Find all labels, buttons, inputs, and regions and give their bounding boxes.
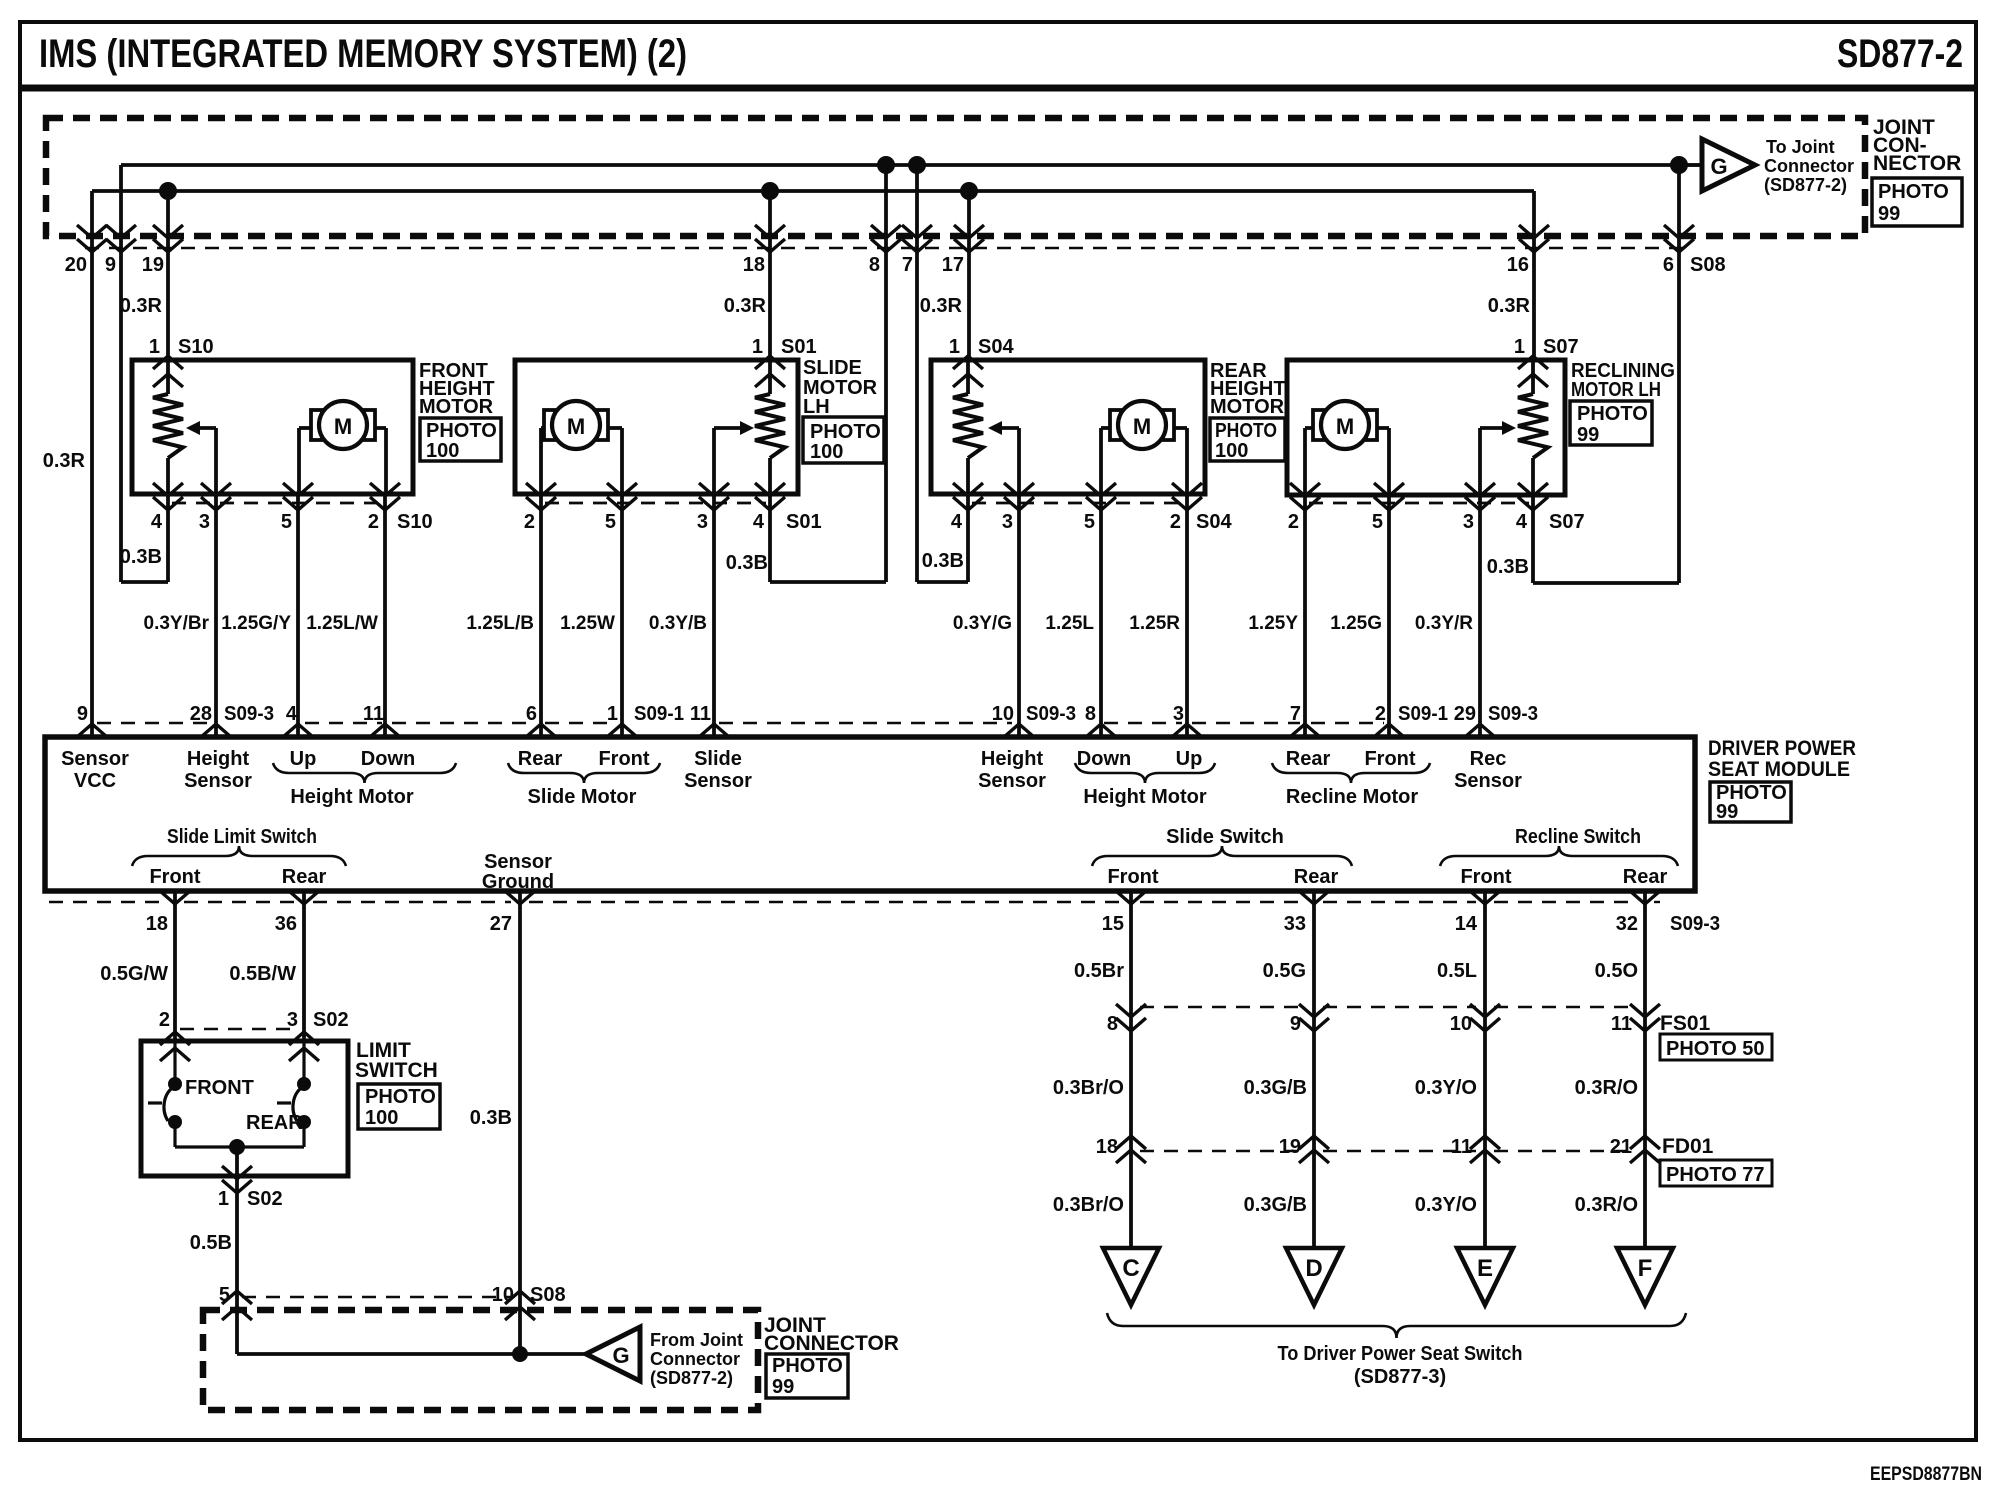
- wire S08 pin9 to S10 pin4 (0.3B loop): [119, 165, 123, 582]
- PHOTO 99 box (S07): [1570, 401, 1652, 445]
- svg-text:5: 5: [605, 511, 616, 533]
- svg-text:S09-3: S09-3: [1026, 703, 1076, 725]
- wire S04 pin5 to module pin8 (1.25L): [1099, 494, 1103, 737]
- svg-text:2: 2: [1375, 703, 1386, 725]
- svg-text:2: 2: [524, 511, 535, 533]
- svg-text:Front: Front: [149, 866, 200, 888]
- svg-text:8: 8: [1107, 1013, 1118, 1035]
- wiper arrow S01: [712, 428, 716, 494]
- svg-text:0.3Y/B: 0.3Y/B: [649, 613, 707, 634]
- FS01 arrows: [1116, 1004, 1146, 1017]
- motor M in S07: [1313, 410, 1324, 440]
- svg-text:0.3B: 0.3B: [470, 1107, 512, 1129]
- svg-text:29: 29: [1454, 703, 1476, 725]
- svg-text:3: 3: [199, 511, 210, 533]
- svg-text:10: 10: [992, 703, 1014, 725]
- bus wire 1 (upper, y=165): [121, 163, 1702, 167]
- wire S01 pin2 to module pin6 (1.25L/B): [539, 494, 543, 737]
- svg-text:S09-3: S09-3: [224, 703, 274, 725]
- motor connector top arrows: [153, 356, 183, 369]
- svg-text:SWITCH: SWITCH: [355, 1059, 438, 1082]
- svg-text:0.3R/O: 0.3R/O: [1575, 1194, 1638, 1216]
- limit switch REAR contact: [302, 1041, 305, 1084]
- svg-text:Slide Switch: Slide Switch: [1166, 826, 1284, 848]
- svg-text:S01: S01: [786, 511, 822, 533]
- svg-text:10: 10: [1450, 1013, 1472, 1035]
- S02 connector dashed line (top): [180, 1028, 296, 1030]
- svg-text:1.25L/B: 1.25L/B: [466, 613, 534, 634]
- svg-text:4: 4: [951, 511, 963, 533]
- limit switch box S02: [141, 1041, 348, 1176]
- svg-text:PHOTO: PHOTO: [1577, 403, 1648, 425]
- svg-text:0.3Br/O: 0.3Br/O: [1053, 1194, 1124, 1216]
- svg-text:S09-3: S09-3: [1670, 913, 1720, 935]
- slide motor LH box S01: [515, 360, 798, 494]
- svg-text:18: 18: [146, 913, 168, 935]
- svg-text:0.3Y/O: 0.3Y/O: [1415, 1077, 1477, 1099]
- triangle E: [1457, 1248, 1513, 1305]
- svg-text:LH: LH: [803, 396, 830, 418]
- bus wire 2 (lower, y=191): [92, 189, 1534, 193]
- svg-text:1: 1: [218, 1188, 229, 1210]
- svg-text:FD01: FD01: [1662, 1135, 1714, 1158]
- limit switch FRONT contact: [173, 1041, 176, 1084]
- brace slide switch: [1092, 846, 1352, 866]
- svg-text:S04: S04: [978, 336, 1014, 358]
- wire module pin15 down to triangle C (0.5Br / 0.3Br/O): [1129, 891, 1133, 1248]
- svg-text:SD877-2: SD877-2: [1837, 32, 1963, 76]
- svg-text:4: 4: [286, 703, 298, 725]
- svg-text:Down: Down: [361, 748, 415, 770]
- node junction dots on bus wires: [159, 182, 177, 200]
- brace slide limit switch: [132, 846, 346, 866]
- svg-text:11: 11: [690, 703, 711, 725]
- FS01 connector dashed line: [1140, 1006, 1305, 1008]
- svg-text:7: 7: [1290, 703, 1301, 725]
- svg-text:Rear: Rear: [518, 748, 563, 770]
- svg-text:M: M: [1133, 414, 1151, 439]
- svg-text:9: 9: [77, 703, 88, 725]
- svg-text:9: 9: [105, 254, 116, 276]
- svg-text:Front: Front: [1364, 748, 1415, 770]
- svg-text:S09-1: S09-1: [634, 703, 684, 725]
- wire module pin36 to S02 pin3 (0.5B/W): [302, 891, 306, 1041]
- svg-text:S07: S07: [1549, 511, 1585, 533]
- svg-text:Height: Height: [187, 748, 250, 770]
- S09 connector dashed line (module top): [97, 722, 208, 724]
- svg-text:4: 4: [1516, 511, 1528, 533]
- svg-text:0.5G: 0.5G: [1263, 960, 1306, 982]
- joint connector dashed box (bottom): [203, 1310, 758, 1410]
- svg-text:99: 99: [1577, 424, 1599, 446]
- svg-text:NECTOR: NECTOR: [1873, 152, 1961, 175]
- svg-text:S09-3: S09-3: [1488, 703, 1538, 725]
- resistor in S10 (height sensor): [166, 360, 170, 394]
- svg-text:0.3R: 0.3R: [120, 295, 163, 317]
- svg-text:1.25Y: 1.25Y: [1248, 613, 1298, 634]
- svg-text:SEAT MODULE: SEAT MODULE: [1708, 758, 1850, 781]
- wire S01 pin3 to module pin11 (0.3Y/B): [712, 494, 716, 737]
- svg-text:Up: Up: [1176, 748, 1203, 770]
- S10 bottom connector dashed line: [172, 502, 381, 505]
- svg-text:Sensor: Sensor: [61, 748, 129, 770]
- resistor in S04 (height sensor): [966, 360, 970, 394]
- svg-text:Slide Limit Switch: Slide Limit Switch: [167, 826, 317, 848]
- svg-text:Recline Motor: Recline Motor: [1286, 786, 1418, 808]
- S09-3 connector dashed line (module bottom): [49, 901, 166, 903]
- PHOTO 99 box (top right): [1872, 178, 1962, 226]
- wire module pin33 down to triangle D (0.5G / 0.3G/B): [1312, 891, 1316, 1248]
- svg-text:Sensor: Sensor: [184, 770, 252, 792]
- svg-text:1.25L/W: 1.25L/W: [306, 613, 378, 634]
- triangle F: [1617, 1248, 1673, 1305]
- wire S08 pin7 to S04 pin4 (0.3B loop): [915, 165, 919, 582]
- svg-text:S04: S04: [1196, 511, 1232, 533]
- svg-text:Height Motor: Height Motor: [1083, 786, 1207, 808]
- svg-text:16: 16: [1507, 254, 1529, 276]
- svg-text:100: 100: [810, 441, 843, 463]
- PHOTO 99 box (module): [1710, 782, 1791, 822]
- svg-text:0.3R: 0.3R: [920, 295, 963, 317]
- svg-text:100: 100: [365, 1107, 398, 1129]
- svg-text:0.5Br: 0.5Br: [1074, 960, 1124, 982]
- svg-text:11: 11: [363, 703, 384, 725]
- wire S10 pin2 to module pin11 (1.25L/W): [383, 494, 387, 737]
- svg-text:0.3R/O: 0.3R/O: [1575, 1077, 1638, 1099]
- wire S08 pin17 to S04 pin1 (0.3R): [967, 191, 971, 360]
- svg-text:Front: Front: [1107, 866, 1158, 888]
- svg-text:17: 17: [942, 254, 964, 276]
- svg-text:1.25G: 1.25G: [1330, 613, 1382, 634]
- S04 bottom connector dashed line: [972, 502, 1183, 505]
- svg-text:1: 1: [1514, 336, 1525, 358]
- svg-text:Ground: Ground: [482, 871, 554, 893]
- svg-text:8: 8: [1085, 703, 1096, 725]
- svg-text:3: 3: [1463, 511, 1474, 533]
- G triangle from joint connector (bottom): [586, 1327, 640, 1381]
- svg-text:99: 99: [772, 1376, 794, 1398]
- svg-text:0.3G/B: 0.3G/B: [1244, 1194, 1307, 1216]
- brace slide motor: [508, 763, 660, 783]
- svg-text:MOTOR: MOTOR: [1210, 396, 1285, 418]
- svg-text:PHOTO: PHOTO: [1215, 420, 1277, 442]
- wire module pin27 sensor ground down (0.3B): [518, 891, 522, 1354]
- svg-text:S08: S08: [530, 1284, 566, 1306]
- module bottom arrows: [160, 891, 190, 904]
- svg-text:99: 99: [1716, 801, 1738, 823]
- svg-text:28: 28: [190, 703, 212, 725]
- svg-text:0.3Y/G: 0.3Y/G: [953, 613, 1012, 634]
- wire S07 pin3 to module pin29 (0.3Y/R): [1478, 495, 1482, 737]
- wiper arrow S10: [214, 428, 218, 494]
- svg-text:Connector: Connector: [650, 1349, 740, 1369]
- PHOTO 100 box (S01): [803, 417, 884, 463]
- svg-text:From Joint: From Joint: [650, 1330, 743, 1350]
- svg-text:36: 36: [275, 913, 297, 935]
- svg-text:PHOTO: PHOTO: [426, 420, 497, 442]
- svg-text:Rear: Rear: [282, 866, 327, 888]
- svg-text:S10: S10: [397, 511, 433, 533]
- svg-text:0.3R: 0.3R: [43, 450, 86, 472]
- svg-text:S09-1: S09-1: [1398, 703, 1448, 725]
- svg-text:Height Motor: Height Motor: [290, 786, 414, 808]
- svg-text:1: 1: [149, 336, 160, 358]
- wire S08 pin19 to S10 pin1 (0.3R): [166, 191, 170, 360]
- svg-text:0.3B: 0.3B: [726, 552, 768, 574]
- joint connector dashed box (top): [46, 118, 1865, 236]
- brace height motor (right): [1075, 763, 1215, 783]
- wire S04 pin3 to module pin10 (0.3Y/G): [1017, 494, 1021, 737]
- svg-text:Slide Motor: Slide Motor: [528, 786, 637, 808]
- svg-text:0.3Br/O: 0.3Br/O: [1053, 1077, 1124, 1099]
- module top arrows (into module): [77, 724, 107, 737]
- svg-text:1.25R: 1.25R: [1129, 613, 1180, 634]
- S08 connector dashed line (bottom): [242, 1296, 514, 1298]
- svg-text:M: M: [1336, 414, 1354, 439]
- S08 bottom arrows: [222, 1291, 252, 1304]
- svg-text:0.5O: 0.5O: [1595, 960, 1638, 982]
- svg-text:Slide: Slide: [694, 748, 742, 770]
- svg-text:19: 19: [1279, 1136, 1301, 1158]
- svg-text:0.3G/B: 0.3G/B: [1244, 1077, 1307, 1099]
- svg-text:1: 1: [752, 336, 763, 358]
- svg-text:33: 33: [1284, 913, 1306, 935]
- svg-text:REAR: REAR: [246, 1112, 303, 1134]
- S08 connector dashed line (top): [85, 247, 1688, 249]
- svg-text:M: M: [334, 414, 352, 439]
- svg-text:M: M: [567, 414, 585, 439]
- svg-text:PHOTO: PHOTO: [1878, 181, 1949, 203]
- driver power seat module box: [45, 737, 1695, 891]
- svg-text:3: 3: [287, 1009, 298, 1031]
- svg-text:0.3Y/R: 0.3Y/R: [1415, 613, 1473, 634]
- svg-text:G: G: [1710, 154, 1727, 179]
- wire S04 pin2 to module pin3 (1.25R): [1185, 494, 1189, 737]
- wire S10 pin3 to module pin28 (0.3Y/Br): [214, 494, 218, 737]
- S02 top arrows: [160, 1032, 190, 1045]
- svg-text:1: 1: [607, 703, 618, 725]
- svg-text:To Joint: To Joint: [1766, 137, 1835, 157]
- svg-text:SLIDE: SLIDE: [803, 357, 862, 379]
- triangle C to driver power seat switch: [1103, 1248, 1159, 1305]
- svg-text:FRONT: FRONT: [185, 1077, 254, 1099]
- svg-text:5: 5: [1084, 511, 1095, 533]
- svg-text:100: 100: [1215, 440, 1248, 462]
- svg-text:Recline Switch: Recline Switch: [1515, 826, 1641, 848]
- svg-text:PHOTO 50: PHOTO 50: [1666, 1038, 1765, 1060]
- svg-text:Sensor: Sensor: [684, 770, 752, 792]
- FD01 connector dashed line: [1140, 1150, 1305, 1152]
- svg-text:E: E: [1477, 1255, 1493, 1282]
- wire module pin18 to S02 pin2 (0.5G/W): [173, 891, 177, 1041]
- svg-text:Front: Front: [1460, 866, 1511, 888]
- limit switch common wire: [175, 1145, 304, 1148]
- PHOTO 50 box: [1660, 1034, 1772, 1060]
- svg-text:5: 5: [219, 1284, 230, 1306]
- svg-text:Rear: Rear: [1623, 866, 1668, 888]
- S01 bottom connector dashed line: [545, 502, 766, 505]
- svg-text:C: C: [1122, 1255, 1139, 1282]
- svg-text:6: 6: [1663, 254, 1674, 276]
- svg-text:EEPSD8877BN: EEPSD8877BN: [1870, 1464, 1982, 1485]
- triangle D: [1286, 1248, 1342, 1305]
- svg-text:27: 27: [490, 913, 512, 935]
- wire to G triangle (bottom): [237, 1352, 586, 1356]
- FD01 arrows: [1116, 1136, 1146, 1149]
- svg-text:S08: S08: [1690, 254, 1726, 276]
- svg-text:5: 5: [281, 511, 292, 533]
- svg-text:0.5B/W: 0.5B/W: [229, 963, 296, 985]
- svg-text:3: 3: [697, 511, 708, 533]
- front height motor box S10: [132, 360, 413, 494]
- wiper arrow S04: [1017, 428, 1021, 494]
- svg-text:0.3R: 0.3R: [724, 295, 767, 317]
- svg-text:Connector: Connector: [1764, 156, 1854, 176]
- svg-text:PHOTO: PHOTO: [772, 1355, 843, 1377]
- svg-text:S07: S07: [1543, 336, 1579, 358]
- svg-text:4: 4: [151, 511, 163, 533]
- svg-text:21: 21: [1610, 1136, 1632, 1158]
- svg-text:3: 3: [1002, 511, 1013, 533]
- svg-text:(SD877-3): (SD877-3): [1354, 1366, 1446, 1388]
- svg-text:Rear: Rear: [1294, 866, 1339, 888]
- svg-text:IMS (INTEGRATED MEMORY SYSTEM): IMS (INTEGRATED MEMORY SYSTEM) (2): [39, 32, 687, 76]
- svg-text:Down: Down: [1077, 748, 1131, 770]
- svg-text:(SD877-2): (SD877-2): [1764, 175, 1847, 195]
- svg-text:VCC: VCC: [74, 770, 116, 792]
- svg-text:0.5G/W: 0.5G/W: [100, 963, 168, 985]
- svg-text:Sensor: Sensor: [1454, 770, 1522, 792]
- svg-text:15: 15: [1102, 913, 1124, 935]
- motor M in S10: [311, 410, 322, 440]
- PHOTO 99 box (bottom joint connector): [766, 1354, 848, 1398]
- svg-text:S10: S10: [178, 336, 214, 358]
- PHOTO 100 box (limit switch): [358, 1084, 440, 1129]
- svg-text:PHOTO: PHOTO: [810, 421, 881, 443]
- svg-text:1: 1: [949, 336, 960, 358]
- svg-text:1.25L: 1.25L: [1045, 613, 1094, 634]
- wire S08 pin18 to S01 pin1 (0.3R): [768, 191, 772, 360]
- wire S07 pin5 to module pin2 (1.25G): [1387, 495, 1391, 737]
- svg-text:100: 100: [426, 440, 459, 462]
- svg-text:18: 18: [1096, 1136, 1118, 1158]
- wiper arrow S07: [1478, 428, 1482, 495]
- brace recline switch: [1440, 846, 1678, 866]
- S02 bottom arrows and labels 1 S02: [222, 1166, 252, 1179]
- wire S01 pin5 to module pin1 (1.25W): [620, 494, 624, 737]
- svg-text:2: 2: [159, 1009, 170, 1031]
- svg-text:99: 99: [1878, 203, 1900, 225]
- svg-text:Rec: Rec: [1470, 748, 1507, 770]
- S08 connector arrows: [77, 225, 107, 238]
- svg-text:Rear: Rear: [1286, 748, 1331, 770]
- svg-text:G: G: [612, 1343, 629, 1368]
- svg-text:0.5L: 0.5L: [1437, 960, 1477, 982]
- svg-text:D: D: [1305, 1255, 1322, 1282]
- wire S08 pin20 down to module pin9 (0.3R): [90, 191, 94, 737]
- svg-text:CONNECTOR: CONNECTOR: [764, 1332, 899, 1355]
- motor M in S04: [1110, 410, 1121, 440]
- svg-text:S02: S02: [313, 1009, 349, 1031]
- svg-text:PHOTO 77: PHOTO 77: [1666, 1164, 1765, 1186]
- G triangle to joint connector (top right): [1680, 163, 1702, 167]
- svg-text:6: 6: [526, 703, 537, 725]
- wire module pin14 down to triangle E (0.5L / 0.3Y/O): [1483, 891, 1487, 1248]
- svg-text:DRIVER POWER: DRIVER POWER: [1708, 737, 1856, 760]
- svg-text:S02: S02: [247, 1188, 283, 1210]
- wire S10 pin5 to module pin4 (1.25G/Y): [296, 494, 300, 737]
- wire module pin32 down to triangle F (0.5O / 0.3R/O): [1643, 891, 1647, 1248]
- svg-text:MOTOR LH: MOTOR LH: [1571, 379, 1661, 401]
- brace height motor (left): [273, 763, 456, 783]
- wire S08 pin8 to S01 pin4 (0.3B loop): [884, 165, 888, 582]
- svg-text:Sensor: Sensor: [484, 851, 552, 873]
- svg-text:1.25W: 1.25W: [560, 613, 615, 634]
- svg-text:11: 11: [1451, 1136, 1472, 1158]
- svg-text:Up: Up: [290, 748, 317, 770]
- svg-text:1.25G/Y: 1.25G/Y: [221, 613, 291, 634]
- svg-text:10: 10: [492, 1284, 514, 1306]
- wire S07 pin2 to module pin7 (1.25Y): [1303, 495, 1307, 737]
- svg-text:20: 20: [65, 254, 87, 276]
- PHOTO 100 box (S10): [420, 418, 501, 461]
- svg-text:S01: S01: [781, 336, 817, 358]
- svg-text:2: 2: [1170, 511, 1181, 533]
- svg-text:0.5B: 0.5B: [190, 1232, 232, 1254]
- resistor in S01 (slide sensor): [768, 360, 772, 394]
- svg-text:3: 3: [1173, 703, 1184, 725]
- svg-text:32: 32: [1616, 913, 1638, 935]
- svg-text:PHOTO: PHOTO: [365, 1086, 436, 1108]
- svg-text:FS01: FS01: [1660, 1012, 1711, 1035]
- svg-text:7: 7: [902, 254, 913, 276]
- svg-text:0.3B: 0.3B: [922, 550, 964, 572]
- svg-text:Sensor: Sensor: [978, 770, 1046, 792]
- svg-text:4: 4: [753, 511, 765, 533]
- svg-text:(SD877-2): (SD877-2): [650, 1368, 733, 1388]
- reclining motor LH box S07: [1287, 360, 1565, 495]
- svg-text:0.3B: 0.3B: [120, 546, 162, 568]
- svg-text:Front: Front: [598, 748, 649, 770]
- svg-text:MOTOR: MOTOR: [419, 396, 494, 418]
- svg-text:2: 2: [1288, 511, 1299, 533]
- S07 bottom connector dashed line: [1309, 502, 1529, 505]
- motor M in S01: [544, 410, 555, 440]
- svg-text:14: 14: [1455, 913, 1478, 935]
- svg-text:0.3B: 0.3B: [1487, 556, 1529, 578]
- svg-text:8: 8: [869, 254, 880, 276]
- svg-text:18: 18: [743, 254, 765, 276]
- svg-text:0.3Y/Br: 0.3Y/Br: [144, 613, 210, 634]
- rear height motor box S04: [931, 360, 1205, 494]
- motor connector bottom arrows: [153, 483, 183, 496]
- title separator bar: [20, 85, 1976, 92]
- PHOTO 100 box (S04): [1210, 418, 1285, 461]
- svg-text:9: 9: [1290, 1013, 1301, 1035]
- brace recline motor: [1272, 763, 1430, 783]
- svg-text:19: 19: [142, 254, 164, 276]
- svg-text:F: F: [1638, 1255, 1653, 1282]
- svg-text:0.3Y/O: 0.3Y/O: [1415, 1194, 1477, 1216]
- svg-text:Height: Height: [981, 748, 1044, 770]
- svg-text:5: 5: [1372, 511, 1383, 533]
- svg-text:0.3R: 0.3R: [1488, 295, 1531, 317]
- brace under triangles: [1107, 1313, 1686, 1338]
- svg-text:11: 11: [1611, 1013, 1632, 1035]
- PHOTO 77 box: [1660, 1160, 1772, 1186]
- svg-text:2: 2: [368, 511, 379, 533]
- wire S08 pin16 to S07 pin1 (0.3R): [1532, 191, 1536, 360]
